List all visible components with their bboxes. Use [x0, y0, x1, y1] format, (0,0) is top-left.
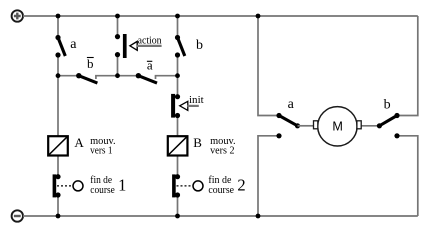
wire column A lower [57, 195, 59, 216]
svg-text:b: b [384, 98, 391, 113]
label mouv. vers 1 [90, 136, 116, 157]
motor M [314, 107, 362, 146]
svg-text:2: 2 [237, 175, 245, 194]
label fin de course 1 [90, 175, 126, 196]
wire motor left lead [298, 125, 314, 127]
pushbutton init (NC) [171, 94, 180, 118]
wire motor right lead [361, 125, 379, 127]
junction top rail at action [115, 14, 120, 19]
coil A [48, 136, 68, 155]
wire column A below coil [57, 156, 59, 177]
supply terminal minus [12, 210, 23, 221]
pushbutton action (NO) [115, 34, 127, 58]
junction bottom rail at A [56, 214, 61, 219]
wire motor loop right upper [399, 16, 418, 116]
svg-text:vers 2: vers 2 [210, 146, 234, 157]
svg-text:B: B [193, 135, 202, 150]
actuator arrow init [180, 101, 199, 110]
limit switch fin de course 1 (NC) [53, 174, 83, 198]
label b-bar [87, 56, 94, 71]
wire column B below coil [177, 156, 179, 177]
wire column B upper [177, 16, 179, 38]
svg-text:A: A [74, 135, 84, 150]
svg-text:M: M [332, 119, 343, 133]
svg-text:course: course [208, 185, 234, 196]
junction row2 at A [56, 73, 61, 78]
junction top rail at A [56, 14, 61, 19]
wire motor loop left lower [258, 136, 277, 216]
svg-text:vers 1: vers 1 [90, 146, 112, 157]
switch a [55, 35, 65, 58]
wire row 2 middle segment with tick [96, 76, 137, 79]
wire column B lower [177, 195, 179, 216]
junction bottom rail at motor loop [256, 214, 261, 219]
coil B [168, 136, 188, 155]
wire column B below init [177, 116, 179, 137]
label mouv. vers 2 [210, 136, 236, 157]
svg-text:action: action [138, 36, 163, 47]
wire column A upper [57, 16, 59, 38]
actuator arrow action [130, 41, 162, 50]
switch b-bar [76, 73, 97, 83]
svg-text:a: a [70, 37, 77, 52]
svg-text:init: init [189, 95, 204, 106]
svg-text:1: 1 [118, 175, 126, 194]
wire row 2 right segment with tick [156, 76, 178, 79]
switch b [175, 35, 185, 58]
wire row 2 left segment [58, 75, 77, 77]
svg-text:course: course [90, 185, 115, 196]
svg-text:a: a [288, 97, 295, 112]
wire column action lower [117, 55, 119, 76]
wire bottom rail [23, 215, 418, 217]
wire motor loop left upper [258, 16, 277, 116]
junction bottom rail at B [175, 214, 180, 219]
junction top rail at motor loop [256, 14, 261, 19]
changeover contact a (motor) [276, 113, 300, 138]
wire top rail [23, 15, 418, 17]
label a-bar [147, 57, 153, 72]
changeover contact b (motor) [377, 113, 400, 138]
junction row2 at action [115, 73, 120, 78]
svg-text:b: b [87, 56, 94, 71]
label fin de course 2 [208, 175, 245, 196]
wire column action upper [117, 16, 119, 37]
svg-text:a: a [147, 57, 153, 72]
wire column B middle [177, 55, 179, 97]
svg-text:b: b [196, 38, 203, 53]
switch a-bar [136, 73, 157, 83]
wire column A middle [57, 55, 59, 136]
limit switch fin de course 2 (NC) [172, 174, 203, 198]
junction row2 at B [175, 73, 180, 78]
wire motor loop right lower [399, 136, 418, 216]
junction top rail at B [175, 14, 180, 19]
supply terminal plus [12, 10, 23, 21]
